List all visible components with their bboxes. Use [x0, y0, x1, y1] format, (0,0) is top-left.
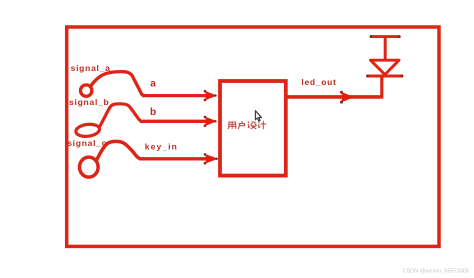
svg-text:signal_c: signal_c	[67, 138, 107, 148]
glyph 设	[248, 122, 256, 129]
block U1 (user design box)	[220, 81, 286, 176]
arrowhead a	[204, 90, 217, 101]
svg-text:led_out: led_out	[301, 77, 336, 87]
arrowhead key_in	[204, 153, 219, 164]
svg-text:b: b	[150, 107, 156, 118]
wire diode anode riser	[384, 37, 387, 60]
svg-text:signal_b: signal_b	[69, 97, 109, 107]
border frame	[67, 27, 439, 246]
arrowhead led_out	[340, 91, 354, 104]
svg-text:key_in: key_in	[145, 141, 178, 151]
wire diode cathode riser	[380, 76, 383, 99]
svg-text:signal_a: signal_a	[71, 63, 111, 73]
wire led_out	[287, 95, 381, 99]
wire a	[142, 94, 211, 97]
power rail bar	[370, 35, 400, 38]
mouse cursor	[255, 111, 261, 121]
glyph 户	[238, 121, 244, 128]
svg-text:CSDN @weixin_55573305: CSDN @weixin_55573305	[403, 268, 470, 274]
wire key_in	[139, 157, 211, 160]
svg-text:a: a	[150, 78, 156, 89]
LED D1 cathode bar	[367, 75, 404, 78]
signal_b input loop scribble	[75, 104, 143, 138]
glyph 计	[259, 121, 266, 129]
label 用户设计 (drawn glyphs)	[228, 121, 265, 129]
arrowhead b	[204, 116, 217, 127]
LED D1 triangle	[371, 60, 400, 74]
glyph 用	[228, 122, 236, 129]
signal_a input loop scribble	[81, 72, 145, 97]
signal_c input loop scribble	[80, 141, 141, 177]
wire b	[140, 120, 211, 123]
